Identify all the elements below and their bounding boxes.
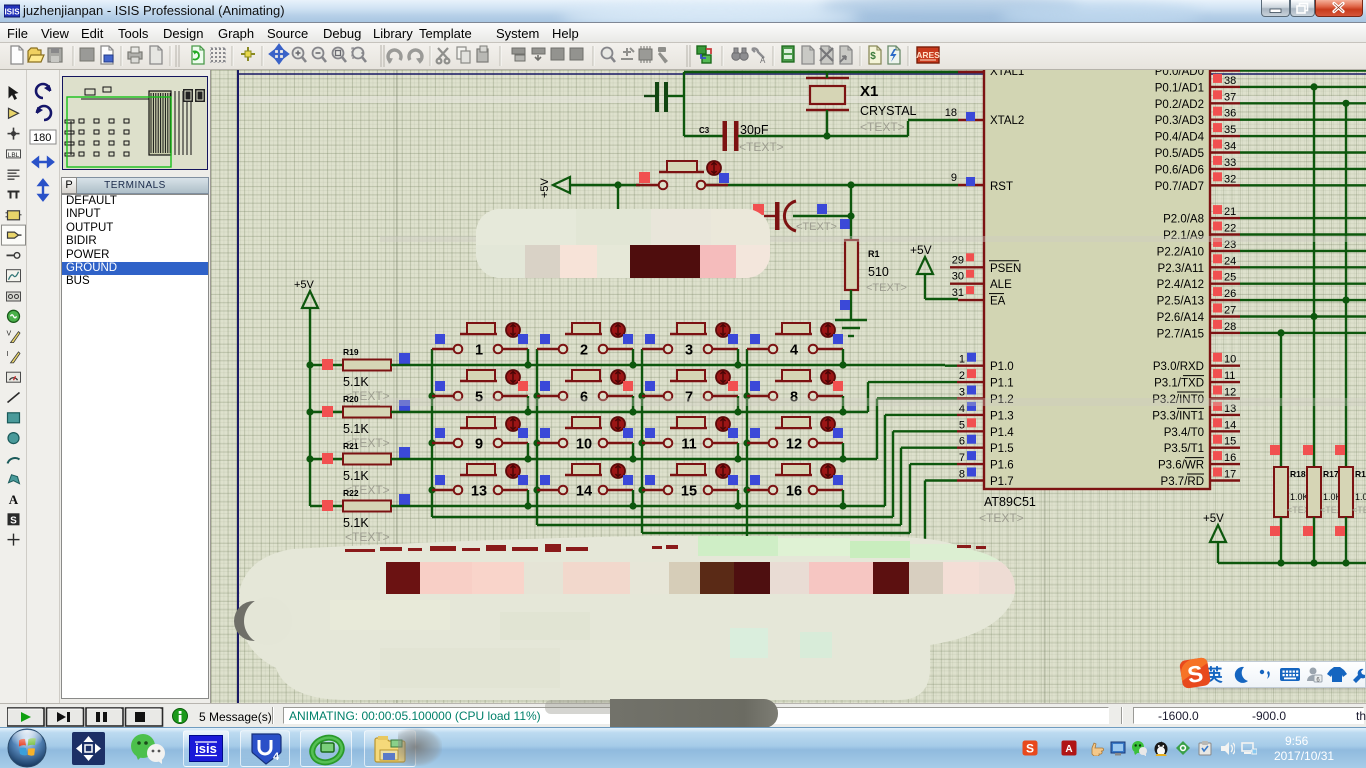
pin 32 P0.7 <box>1210 184 1240 186</box>
svg-text:P1.6: P1.6 <box>990 460 1014 472</box>
node P0.2 junction <box>1342 100 1349 107</box>
svg-text:28: 28 <box>1224 321 1236 333</box>
svg-text:A: A <box>1065 744 1072 755</box>
node +5V rail 3 <box>306 455 313 462</box>
svg-text:P0.4/AD4: P0.4/AD4 <box>1155 132 1205 144</box>
node column A row tap <box>428 486 435 493</box>
svg-text:P3.0/RXD: P3.0/RXD <box>1153 361 1204 373</box>
svg-text:P0.5/AD5: P0.5/AD5 <box>1155 148 1204 160</box>
ground symbol <box>835 319 867 321</box>
wire rail 3 left <box>310 458 343 460</box>
svg-text:12: 12 <box>786 437 802 453</box>
svg-text:P0.3/AD3: P0.3/AD3 <box>1155 115 1204 127</box>
pin 24 P2.3 <box>1210 266 1240 268</box>
pin 35 P0.4 <box>1210 135 1240 137</box>
button 2 (keypad) <box>537 348 559 350</box>
pin 12 P3.2/INT0 <box>1210 397 1240 399</box>
svg-text:38: 38 <box>1224 75 1236 87</box>
node button 3 rail junction <box>734 361 741 368</box>
wire P2.5 <box>1240 299 1366 301</box>
svg-text:9: 9 <box>475 437 483 453</box>
svg-text:P3.5/T1: P3.5/T1 <box>1164 443 1204 455</box>
svg-text:R17: R17 <box>1323 469 1339 479</box>
svg-text:P3.6/WR: P3.6/WR <box>1158 460 1204 472</box>
svg-text:P2.3/A11: P2.3/A11 <box>1158 263 1204 275</box>
svg-text:X1: X1 <box>860 83 878 100</box>
svg-text:3: 3 <box>959 387 965 399</box>
pin 26 P2.5 <box>1210 299 1240 301</box>
svg-text:<TEXT>: <TEXT> <box>796 221 837 233</box>
button RESET <box>636 184 659 186</box>
wire button 3 to rail <box>737 349 739 365</box>
wire button 7 to rail <box>737 396 739 412</box>
node button 10 rail junction <box>629 455 636 462</box>
node column B row tap <box>533 439 540 446</box>
node button 2 rail junction <box>629 361 636 368</box>
wire rail 1 left <box>310 364 343 366</box>
svg-text:15: 15 <box>1224 436 1236 448</box>
censor blob bottom <box>240 535 1030 705</box>
svg-text:S: S <box>1026 742 1034 756</box>
svg-text:4: 4 <box>790 343 798 359</box>
node rail R18 <box>1277 559 1284 566</box>
svg-text:24: 24 <box>1224 255 1236 267</box>
pin 28 P2.7 <box>1210 332 1240 334</box>
pin 5 P1.4 <box>957 430 984 432</box>
svg-text:15: 15 <box>681 484 697 500</box>
resistor R1 510 <box>850 216 852 240</box>
wire button 10 to rail <box>632 443 634 459</box>
svg-text:P1.3: P1.3 <box>990 410 1014 422</box>
svg-text:P1.1: P1.1 <box>990 378 1014 390</box>
svg-text:<TEXT>: <TEXT> <box>866 282 907 294</box>
svg-text:7: 7 <box>959 452 965 464</box>
svg-text:C3: C3 <box>699 126 710 135</box>
button 7 (keypad) <box>642 395 664 397</box>
wire row rail 1 to P1.0 <box>391 364 945 366</box>
wire button 14 to rail <box>632 490 634 506</box>
pin 33 P0.6 <box>1210 168 1240 170</box>
pin 13 P3.3/INT1 <box>1210 414 1240 416</box>
wire row rail 4 to P1.3 <box>391 505 885 507</box>
node column C row tap <box>638 392 645 399</box>
svg-text:<TEXT>: <TEXT> <box>1352 505 1366 515</box>
svg-text:PSEN: PSEN <box>990 263 1021 275</box>
resistor R21 5.1K <box>343 454 391 465</box>
node button 5 rail junction <box>524 408 531 415</box>
svg-text:+5V: +5V <box>910 243 932 257</box>
pin 10 P3.0/RXD <box>1210 365 1240 367</box>
svg-text:P1.4: P1.4 <box>990 427 1014 439</box>
node button 14 rail junction <box>629 502 636 509</box>
node column D row tap <box>743 439 750 446</box>
svg-text:<TEXT>: <TEXT> <box>739 140 784 154</box>
pin 7 P1.6 <box>957 463 984 465</box>
button 12 (keypad) <box>747 442 769 444</box>
svg-text:R19: R19 <box>343 347 359 357</box>
button 11 (keypad) <box>642 442 664 444</box>
wire RST rail <box>570 184 640 186</box>
svg-text:V: V <box>7 331 12 338</box>
power +5V terminal (RST) <box>553 177 570 193</box>
node column D row tap <box>743 392 750 399</box>
node column C row tap <box>638 486 645 493</box>
svg-text:P3.4/T0: P3.4/T0 <box>1164 427 1204 439</box>
svg-text:ARES: ARES <box>916 50 940 60</box>
svg-text:25: 25 <box>1224 272 1236 284</box>
gray crescent <box>234 601 274 641</box>
svg-text:+5V: +5V <box>294 279 315 291</box>
node column B row tap <box>533 392 540 399</box>
svg-text:R1: R1 <box>868 249 880 259</box>
svg-text:<TEXT>: <TEXT> <box>860 120 905 134</box>
resistor R20 5.1K <box>343 407 391 418</box>
node P2.6 junction <box>1310 313 1317 320</box>
svg-text:P0.1/AD1: P0.1/AD1 <box>1155 82 1204 94</box>
svg-text:I: I <box>7 351 9 358</box>
node button 9 rail junction <box>524 455 531 462</box>
button 16 (keypad) <box>747 489 769 491</box>
svg-text:R18: R18 <box>1290 469 1306 479</box>
svg-text:10: 10 <box>1224 354 1236 366</box>
pin 15 P3.5/T1 <box>1210 447 1240 449</box>
pin 3 P1.2 <box>957 397 984 399</box>
svg-text:37: 37 <box>1224 91 1236 103</box>
svg-text:5.1K: 5.1K <box>343 469 369 483</box>
node +5V rail 2 <box>306 408 313 415</box>
svg-text:18: 18 <box>945 107 957 119</box>
svg-text:A: A <box>9 492 19 507</box>
svg-text:S: S <box>10 515 17 526</box>
svg-text:6: 6 <box>959 436 965 448</box>
node column A row tap <box>428 439 435 446</box>
wire P2.3 <box>1240 266 1366 268</box>
svg-text:29: 29 <box>952 254 964 266</box>
wire P2.4 <box>1240 283 1366 285</box>
svg-text:P3.3/INT1: P3.3/INT1 <box>1152 410 1204 422</box>
button 1 (keypad) <box>432 348 454 350</box>
node button 12 rail junction <box>839 455 846 462</box>
svg-text:26: 26 <box>1224 288 1236 300</box>
svg-text:<TEXT>: <TEXT> <box>979 511 1024 525</box>
wire P0.3 <box>1240 118 1366 120</box>
pin 21 P2.0 <box>1210 217 1240 219</box>
pin XTAL1 stub <box>958 71 984 73</box>
svg-text:P2.7/A15: P2.7/A15 <box>1157 328 1204 340</box>
svg-text:XTAL2: XTAL2 <box>990 115 1024 127</box>
node button 15 rail junction <box>734 502 741 509</box>
node button 6 rail junction <box>629 408 636 415</box>
wire +5V bottom rail <box>1218 562 1366 564</box>
wire button 8 to rail <box>842 396 844 412</box>
svg-text:ISIS: ISIS <box>4 8 20 17</box>
pin 25 P2.4 <box>1210 283 1240 285</box>
button 10 (keypad) <box>537 442 559 444</box>
svg-text:+5V: +5V <box>1203 513 1224 525</box>
node button 7 rail junction <box>734 408 741 415</box>
resistor R19 5.1K <box>343 360 391 371</box>
pin 9 RST <box>958 184 984 186</box>
svg-text:P2.0/A8: P2.0/A8 <box>1163 214 1204 226</box>
svg-text:<TEXT>: <TEXT> <box>345 530 390 544</box>
svg-text:P0.7/AD7: P0.7/AD7 <box>1155 181 1204 193</box>
svg-text:4: 4 <box>273 751 280 763</box>
svg-text:30: 30 <box>952 271 964 283</box>
capacitor C2 <box>644 95 656 97</box>
faint blur band 1 <box>380 236 1366 242</box>
svg-text:AT89C51: AT89C51 <box>984 495 1036 509</box>
wire P0.5 <box>1240 151 1366 153</box>
node column B row tap <box>533 486 540 493</box>
pin 31 EA <box>958 299 984 301</box>
node P2.5 junction <box>1342 297 1349 304</box>
wire button 2 to rail <box>632 349 634 365</box>
svg-text:P0.0/AD0: P0.0/AD0 <box>1155 70 1204 78</box>
pin 6 P1.5 <box>957 447 984 449</box>
wire P0.2 <box>1240 102 1366 104</box>
wire column B to P1.5 <box>536 349 538 525</box>
wire button 13 to rail <box>527 490 529 506</box>
pin 37 P0.2 <box>1210 102 1240 104</box>
pin 4 P1.3 <box>957 414 984 416</box>
capacitor C3 30pF <box>684 135 723 137</box>
node P0.1 junction <box>1310 83 1317 90</box>
svg-text:11: 11 <box>681 437 696 453</box>
svg-text:5.1K: 5.1K <box>343 422 369 436</box>
node rail R16 <box>1342 559 1349 566</box>
svg-text:33: 33 <box>1224 157 1236 169</box>
node +5V rail 1 <box>306 361 313 368</box>
pin 23 P2.2 <box>1210 250 1240 252</box>
pin 22 P2.1 <box>1210 233 1240 235</box>
svg-text:5: 5 <box>959 419 965 431</box>
wire button 12 to rail <box>842 443 844 459</box>
svg-text:XTAL1: XTAL1 <box>990 70 1024 78</box>
wire button 15 to rail <box>737 490 739 506</box>
pin 30 ALE <box>950 283 984 285</box>
svg-text:P2.5/A13: P2.5/A13 <box>1157 296 1204 308</box>
resistor R22 5.1K <box>343 501 391 512</box>
svg-text:5.1K: 5.1K <box>343 375 369 389</box>
wire RST to C1 <box>850 185 852 216</box>
wire button 1 to rail <box>527 349 529 365</box>
button 5 (keypad) <box>432 395 454 397</box>
svg-text:8: 8 <box>959 469 965 481</box>
node P2.7 junction <box>1277 329 1284 336</box>
svg-text:P2.6/A14: P2.6/A14 <box>1157 312 1205 324</box>
wire P0.1 <box>1240 86 1366 88</box>
svg-text:A: A <box>760 56 766 65</box>
node column A row tap <box>428 392 435 399</box>
wire column A to P1.4 <box>431 349 433 517</box>
wire P2.6 <box>1240 315 1366 317</box>
wire button 5 to rail <box>527 396 529 412</box>
svg-text:P0.6/AD6: P0.6/AD6 <box>1155 164 1204 176</box>
pin 27 P2.6 <box>1210 315 1240 317</box>
svg-text:2: 2 <box>580 343 588 359</box>
pin 17 P3.7/RD <box>1210 479 1240 481</box>
caption fragments <box>345 544 986 552</box>
svg-text:180: 180 <box>33 132 51 144</box>
wire vertical bus b <box>1313 87 1315 467</box>
svg-text:22: 22 <box>1224 223 1236 235</box>
node column C row tap <box>638 439 645 446</box>
svg-text:R16: R16 <box>1355 469 1366 479</box>
wire rail 2 left <box>310 411 343 413</box>
svg-text:13: 13 <box>471 484 487 500</box>
wire vertical bus a <box>1280 333 1282 467</box>
svg-text:12: 12 <box>1224 387 1236 399</box>
wire button 4 to rail <box>842 349 844 365</box>
button 15 (keypad) <box>642 489 664 491</box>
node button 13 rail junction <box>524 502 531 509</box>
pin 14 P3.4/T0 <box>1210 430 1240 432</box>
pin 1 P1.0 <box>957 365 984 367</box>
node RST junction right <box>847 181 854 188</box>
wire rail 4 left <box>310 505 343 507</box>
svg-text:1: 1 <box>959 354 965 366</box>
svg-text:$: $ <box>870 51 876 62</box>
wire button 11 to rail <box>737 443 739 459</box>
svg-text:P1.5: P1.5 <box>990 443 1014 455</box>
pin 11 P3.1/TXD <box>1210 381 1240 383</box>
wire P2.7 <box>1240 332 1366 334</box>
node button 16 rail junction <box>839 502 846 509</box>
wire P2.0 <box>1240 217 1366 219</box>
resistor R18 1.0K <box>1274 467 1288 517</box>
wire P0.6 <box>1240 168 1366 170</box>
node rail R17 <box>1310 559 1317 566</box>
svg-text:14: 14 <box>1224 419 1236 431</box>
svg-text:P2.4/A12: P2.4/A12 <box>1157 279 1204 291</box>
button 4 (keypad) <box>747 348 769 350</box>
svg-text:R22: R22 <box>343 488 359 498</box>
node RST junction left <box>614 181 621 188</box>
svg-text:5.1K: 5.1K <box>343 516 369 530</box>
faint blur band top <box>238 96 1366 103</box>
svg-text:LBL: LBL <box>8 152 20 159</box>
pin 8 P1.7 <box>957 479 984 481</box>
button 9 (keypad) <box>432 442 454 444</box>
svg-text:R21: R21 <box>343 441 359 451</box>
resistor R16 1.0K <box>1339 467 1353 517</box>
svg-text:10: 10 <box>576 437 592 453</box>
wire column D to P1.7 <box>746 349 748 541</box>
svg-text:11: 11 <box>1224 370 1235 382</box>
wire XTAL1 net top <box>684 71 958 73</box>
svg-text:P2.2/A10: P2.2/A10 <box>1157 246 1204 258</box>
resistor R17 1.0K <box>1307 467 1321 517</box>
censor blob middle <box>476 208 775 278</box>
svg-text:14: 14 <box>576 484 592 500</box>
svg-text:21: 21 <box>1224 206 1236 218</box>
button 14 (keypad) <box>537 489 559 491</box>
pin 16 P3.6/WR <box>1210 463 1240 465</box>
svg-text:2: 2 <box>959 370 965 382</box>
pin 36 P0.3 <box>1210 118 1240 120</box>
wire +5V column <box>309 308 311 506</box>
svg-text:R20: R20 <box>343 394 359 404</box>
wire P0.4 <box>1240 135 1366 137</box>
button 3 (keypad) <box>642 348 664 350</box>
svg-text:CRYSTAL: CRYSTAL <box>860 104 917 118</box>
wire P2.1 <box>1240 233 1366 235</box>
wire P0.7 <box>1240 184 1366 186</box>
wire row rail 2 to P1.1 <box>391 411 868 413</box>
svg-text:35: 35 <box>1224 124 1236 136</box>
wire button 16 to rail <box>842 490 844 506</box>
svg-text:34: 34 <box>1224 141 1236 153</box>
svg-text:3: 3 <box>685 343 693 359</box>
button 8 (keypad) <box>747 395 769 397</box>
svg-text:510: 510 <box>868 265 889 279</box>
node button 4 rail junction <box>839 361 846 368</box>
svg-text:isis: isis <box>195 741 217 756</box>
faint blur band 2 <box>380 398 1366 406</box>
pin 18 XTAL2 <box>958 119 984 121</box>
svg-text:RST: RST <box>990 181 1013 193</box>
pin 2 P1.1 <box>957 381 984 383</box>
node button 11 rail junction <box>734 455 741 462</box>
wire button 9 to rail <box>527 443 529 459</box>
svg-text:27: 27 <box>1224 305 1236 317</box>
svg-text:16: 16 <box>1224 452 1236 464</box>
node column D row tap <box>743 486 750 493</box>
sheet border <box>237 70 239 703</box>
svg-text:1.0K: 1.0K <box>1355 492 1366 502</box>
node XTAL2 junction <box>823 132 830 139</box>
svg-text:P1.7: P1.7 <box>990 476 1014 488</box>
node C1/R1 junction <box>847 212 854 219</box>
button 6 (keypad) <box>537 395 559 397</box>
wire C3 to XTAL2 <box>738 135 908 137</box>
svg-text:ALE: ALE <box>990 279 1012 291</box>
svg-text:EA: EA <box>990 296 1006 308</box>
svg-text:P1.0: P1.0 <box>990 361 1014 373</box>
node button 1 rail junction <box>524 361 531 368</box>
svg-text:17: 17 <box>1224 469 1236 481</box>
pin 34 P0.5 <box>1210 151 1240 153</box>
pin 39 P0.0 wire <box>1210 69 1240 71</box>
svg-text:P3.1/TXD: P3.1/TXD <box>1154 378 1204 390</box>
svg-text:16: 16 <box>786 484 802 500</box>
wire vertical bus c <box>1345 103 1347 467</box>
svg-text:P3.7/RD: P3.7/RD <box>1161 476 1204 488</box>
wire P2.2 <box>1240 250 1366 252</box>
svg-text:32: 32 <box>1224 173 1236 185</box>
svg-text:1: 1 <box>475 343 483 359</box>
node button 8 rail junction <box>839 408 846 415</box>
svg-text:31: 31 <box>952 287 964 299</box>
svg-text:9: 9 <box>951 172 957 184</box>
capacitor C1 (electrolytic) <box>764 215 775 217</box>
pin 29 PSEN <box>950 266 984 268</box>
svg-text:P0.2/AD2: P0.2/AD2 <box>1155 99 1204 111</box>
wire row rail 3 to P1.2 <box>391 458 877 460</box>
wire button 6 to rail <box>632 396 634 412</box>
pin 38 P0.1 <box>1210 86 1240 88</box>
svg-text:+5V: +5V <box>539 177 551 198</box>
svg-text:36: 36 <box>1224 108 1236 120</box>
crystal X1 <box>806 77 849 79</box>
svg-text:1.0K: 1.0K <box>1290 492 1309 502</box>
MCU U1 AT89C51 <box>984 62 1210 489</box>
button 13 (keypad) <box>432 489 454 491</box>
wire column C to P1.6 <box>641 349 643 533</box>
